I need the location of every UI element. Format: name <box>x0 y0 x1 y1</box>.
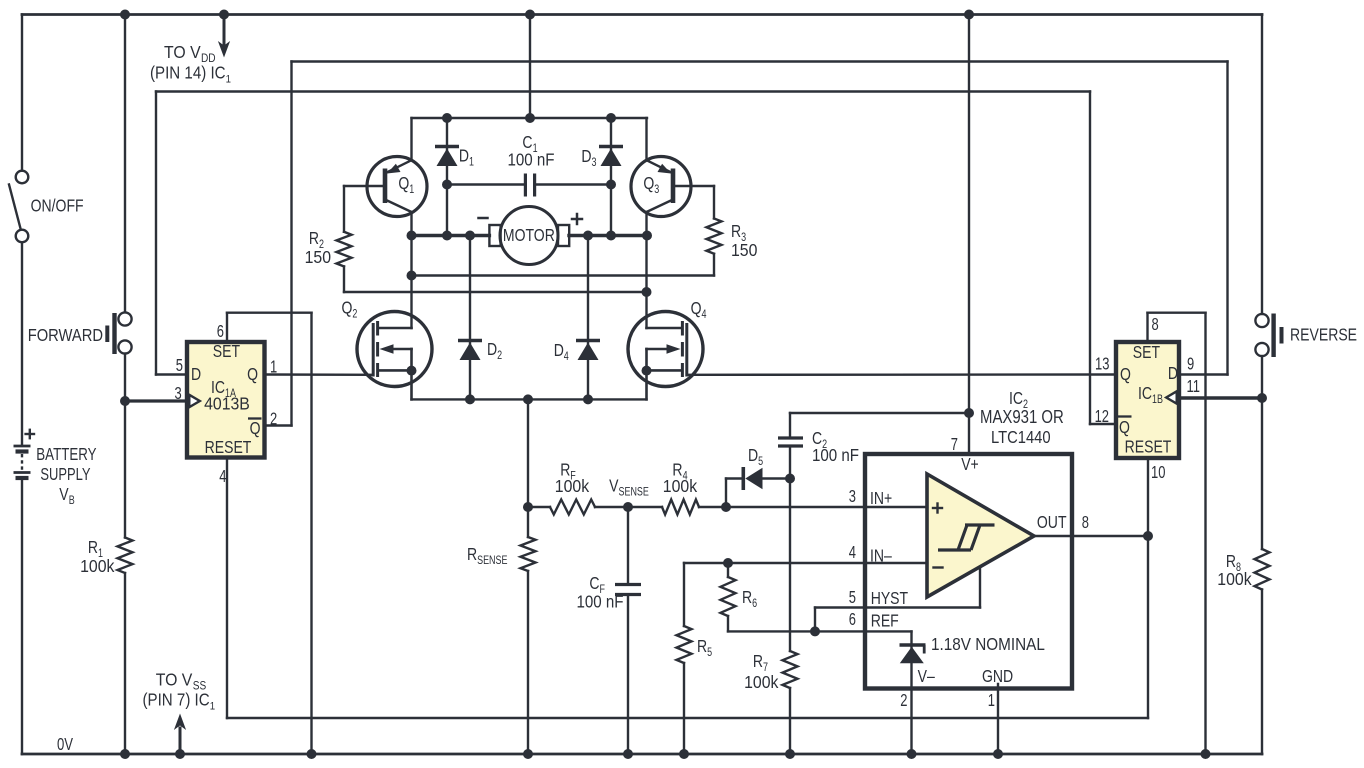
junction top rail / IC2 V+ feed <box>964 10 974 20</box>
wire R8 to 0V rail <box>1261 590 1263 755</box>
svg-text:TO V: TO V <box>156 670 193 690</box>
junction / R3 line <box>407 271 417 281</box>
svg-text:5: 5 <box>176 356 183 376</box>
wire D4 branch <box>587 236 589 400</box>
svg-text:1: 1 <box>210 700 215 713</box>
svg-text:2: 2 <box>900 691 907 711</box>
wire IC1B pin10 RESET down <box>1147 458 1149 718</box>
svg-text:SENSE: SENSE <box>619 486 649 498</box>
wire net QbarA to DB (horizontal) <box>292 60 1228 62</box>
wire motor-left to Q2 drain <box>410 236 412 329</box>
junction D5 / C2 / R7 <box>785 474 795 484</box>
op-amp U-triangle IC2 <box>927 474 1034 597</box>
junction motor-left / D1 <box>442 231 452 241</box>
junction top rail / VDD tap <box>219 10 229 20</box>
svg-text:Q: Q <box>1120 364 1131 384</box>
svg-text:6: 6 <box>217 322 224 342</box>
wire rail to IC2 V+ pin7 <box>968 15 970 463</box>
svg-text:4: 4 <box>564 351 569 363</box>
wire REF internal <box>865 630 912 632</box>
wire SET6 to 0V rail <box>310 313 312 754</box>
svg-text:10: 10 <box>1151 463 1166 483</box>
svg-text:2: 2 <box>270 410 277 430</box>
wire IC1A pin6 SET loop <box>226 313 228 342</box>
junction motor-right / D3 <box>606 231 616 241</box>
svg-text:4: 4 <box>702 309 707 321</box>
junction motor-left / D2 <box>465 231 475 241</box>
junction row / D2 <box>465 394 475 404</box>
svg-text:REVERSE: REVERSE <box>1290 325 1357 345</box>
svg-text:8: 8 <box>1152 315 1159 335</box>
svg-text:150: 150 <box>731 240 757 260</box>
motor plus terminal <box>572 218 582 221</box>
transistor Q2 NMOS <box>357 312 432 387</box>
wire IC1B pin9 D <box>1181 373 1228 375</box>
svg-text:4: 4 <box>849 543 856 563</box>
junction V+ / C2 <box>964 408 974 418</box>
svg-text:MAX931 OR: MAX931 OR <box>980 407 1064 428</box>
svg-text:1B: 1B <box>1152 394 1163 406</box>
wire IC1A pin5 D <box>156 373 186 375</box>
junction GND / 0V rail <box>993 749 1003 759</box>
wire to R5 <box>683 563 685 626</box>
svg-text:3: 3 <box>654 184 659 196</box>
resistor R8 <box>1255 549 1270 590</box>
resistor R2 <box>343 186 345 232</box>
wire bottom rail 0V <box>22 753 1262 756</box>
resistor R7 <box>783 651 798 688</box>
wire battery to 0V rail <box>21 481 23 754</box>
junction top rail / forward <box>120 10 130 20</box>
junction 0V rail / VSS tap <box>175 749 185 759</box>
wire R4 to IN+ pin3 <box>699 506 865 508</box>
flip-flop IC1A 4013B <box>187 342 265 458</box>
svg-text:1: 1 <box>469 156 474 168</box>
wire D3 branch <box>610 118 612 236</box>
svg-text:IC: IC <box>1009 388 1023 408</box>
wire D1 branch <box>446 118 448 236</box>
junction RSENSE / 0V rail <box>523 749 533 759</box>
svg-text:Q: Q <box>643 173 654 193</box>
wire left rail upper <box>21 15 23 171</box>
wire H-bridge source row <box>412 398 647 400</box>
svg-text:B: B <box>69 495 75 507</box>
wire IN+ internal <box>865 506 927 508</box>
svg-text:1.18V NOMINAL: 1.18V NOMINAL <box>931 634 1045 654</box>
junction motor-left / Q1 collector <box>407 231 417 241</box>
wire DB riser <box>1226 62 1228 375</box>
svg-text:1: 1 <box>409 184 414 196</box>
svg-text:TO V: TO V <box>164 42 201 62</box>
svg-text:R: R <box>753 651 763 671</box>
junction CF / 0V rail <box>623 749 633 759</box>
svg-text:BATTERY: BATTERY <box>36 445 97 464</box>
svg-text:SET: SET <box>213 341 240 361</box>
wire QbarB riser <box>1089 92 1091 425</box>
switch S1 blade <box>9 185 21 229</box>
svg-text:6: 6 <box>752 598 757 610</box>
wire C2 to V+ node <box>790 412 969 414</box>
resistor R5 <box>677 626 692 663</box>
wire VSENSE node <box>595 506 662 508</box>
wire REF pin6 line <box>728 630 865 632</box>
svg-text:9: 9 <box>1187 355 1194 375</box>
svg-text:R: R <box>697 636 707 656</box>
svg-text:RESET: RESET <box>205 437 252 457</box>
svg-text:150: 150 <box>305 247 331 267</box>
svg-text:Q: Q <box>398 173 409 193</box>
transistor Q4 NMOS <box>628 312 703 387</box>
junction forward/clock3 <box>120 396 130 406</box>
wire motor-right to Q4 drain <box>645 236 647 329</box>
wire RESET net horizontal <box>227 717 1148 719</box>
junction R7 / 0V rail <box>785 749 795 759</box>
transistor Q1 PNP <box>367 157 427 217</box>
wire motor row left <box>412 234 490 237</box>
wire OUT pin8 <box>1034 535 1148 537</box>
wire HYST pin5 <box>815 606 865 608</box>
diode D5 <box>725 479 727 508</box>
arrow to VDD <box>223 15 226 46</box>
svg-text:IN–: IN– <box>870 546 892 566</box>
junction D1 / C1 <box>442 180 452 190</box>
junction Q2 source/body <box>407 366 417 376</box>
svg-text:1: 1 <box>988 691 995 711</box>
svg-text:8: 8 <box>1082 513 1089 533</box>
svg-text:11: 11 <box>1187 377 1200 397</box>
svg-text:100k: 100k <box>663 476 698 496</box>
svg-text:3: 3 <box>849 487 856 507</box>
junction motor-right / D4 <box>583 231 593 241</box>
svg-text:V–: V– <box>918 666 935 686</box>
junction V- pin2 / 0V rail <box>907 749 917 759</box>
capacitor C2 100nF <box>789 447 791 479</box>
junction clock11 / reverse branch <box>1257 393 1267 403</box>
svg-text:6: 6 <box>849 610 856 630</box>
switch S1 ON/OFF contact bottom <box>16 230 29 243</box>
svg-text:4013B: 4013B <box>204 394 250 414</box>
transistor Q3 PNP <box>631 157 691 217</box>
hysteresis symbol <box>938 525 995 550</box>
wire HYST internal <box>865 606 980 608</box>
wire D5 node to R7 <box>789 479 791 652</box>
svg-text:D: D <box>1168 363 1178 383</box>
wire top rail to REVERSE button <box>1261 15 1263 314</box>
svg-text:100k: 100k <box>1217 569 1252 589</box>
wire HYST step <box>814 608 816 632</box>
svg-text:D: D <box>487 339 497 359</box>
svg-text:100 nF: 100 nF <box>577 591 624 612</box>
svg-text:5: 5 <box>707 647 712 659</box>
svg-text:13: 13 <box>1095 355 1110 375</box>
svg-text:SUPPLY: SUPPLY <box>40 465 91 485</box>
IC1B clock input triangle pin 11 <box>1166 391 1177 403</box>
junction bridge rail / supply <box>525 113 535 123</box>
battery supply VB <box>14 445 31 448</box>
wire rail to H-bridge <box>529 15 531 119</box>
wire FORWARD to R1 <box>124 354 126 538</box>
svg-text:ON/OFF: ON/OFF <box>31 196 84 216</box>
svg-text:D: D <box>554 340 564 360</box>
svg-text:Q: Q <box>247 364 258 384</box>
junction RESET10 / OUT <box>1143 531 1153 541</box>
svg-text:R: R <box>467 544 477 564</box>
capacitor C1 100nF <box>447 183 524 185</box>
diode D4 <box>576 339 600 343</box>
junction R5 / 0V rail <box>679 749 689 759</box>
pushbutton FORWARD <box>118 312 131 325</box>
svg-text:7: 7 <box>951 435 958 455</box>
resistor R4 <box>662 500 699 515</box>
svg-text:1: 1 <box>270 358 277 378</box>
wire IN- pin4 line <box>684 562 865 564</box>
junction D3 / C1 <box>606 180 616 190</box>
svg-text:100 nF: 100 nF <box>812 445 859 466</box>
pushbutton REVERSE <box>1255 314 1268 327</box>
junction VSENSE / CF <box>623 502 633 512</box>
junction motor-right / Q3 collector <box>642 231 652 241</box>
wire IC1B pin8 SET loop <box>1146 313 1148 342</box>
junction IN- / R6 <box>723 558 733 568</box>
svg-text:MOTOR: MOTOR <box>503 225 555 245</box>
battery plus sign <box>26 433 34 435</box>
svg-text:REF: REF <box>871 611 899 631</box>
svg-text:SET: SET <box>1133 342 1160 362</box>
flip-flop IC1B <box>1116 342 1179 458</box>
svg-text:5: 5 <box>758 456 763 468</box>
svg-text:RESET: RESET <box>1125 437 1172 457</box>
svg-text:3: 3 <box>175 384 182 404</box>
wire SET8 to 0V rail <box>1204 313 1206 754</box>
resistor RSENSE <box>521 537 536 571</box>
wire H-bridge top rail <box>412 117 648 119</box>
arrow to VSS <box>179 728 182 754</box>
svg-text:V: V <box>609 476 619 496</box>
svg-text:IN+: IN+ <box>870 488 892 508</box>
wire R1 to 0V <box>124 573 126 754</box>
svg-text:Q: Q <box>342 298 353 318</box>
svg-text:2: 2 <box>352 308 357 320</box>
svg-text:5: 5 <box>849 588 856 608</box>
svg-text:100k: 100k <box>744 672 779 692</box>
junction bridge rail / D3 <box>606 113 616 123</box>
resistor R6 <box>721 577 736 616</box>
svg-text:(PIN 7) IC: (PIN 7) IC <box>143 689 210 710</box>
svg-text:4: 4 <box>219 467 226 487</box>
svg-text:V: V <box>59 484 69 504</box>
svg-text:R: R <box>742 587 752 607</box>
wire net QbarB to DA (horizontal) <box>156 90 1090 92</box>
IC1A clock input triangle pin 3 <box>189 395 200 407</box>
wire D2 branch <box>469 236 471 400</box>
svg-text:SENSE: SENSE <box>477 555 507 567</box>
svg-text:1: 1 <box>226 73 231 86</box>
wire IC1B pin11 clock <box>1179 396 1262 399</box>
svg-text:GND: GND <box>982 666 1013 686</box>
svg-text:3: 3 <box>592 157 597 169</box>
junction RSENSE / RF <box>523 502 533 512</box>
wire to RSENSE <box>527 399 529 537</box>
svg-text:D: D <box>459 146 469 166</box>
svg-text:D: D <box>581 146 591 166</box>
junction R4 / D5 <box>721 502 731 512</box>
svg-text:(PIN 14) IC: (PIN 14) IC <box>150 62 226 83</box>
diode D1 <box>435 145 459 149</box>
wire rail to FORWARD button <box>124 15 126 313</box>
junction SET6 / 0V rail <box>307 749 317 759</box>
wire REVERSE to R8 <box>1261 356 1263 549</box>
motor M1 <box>500 207 558 265</box>
switch S1 ON/OFF contact top <box>16 171 29 184</box>
comparator IC2 MAX931/LTC1440 box <box>865 454 1072 689</box>
svg-text:D: D <box>191 364 201 384</box>
comparator plus input mark <box>933 507 942 509</box>
diode D2 <box>458 339 482 343</box>
wire switch to battery <box>21 243 23 445</box>
svg-text:OUT: OUT <box>1037 512 1067 532</box>
junction top rail / bridge feed <box>525 10 535 20</box>
svg-text:IC: IC <box>1138 383 1152 403</box>
diode D3 <box>599 145 623 149</box>
wire GND pin1 <box>997 684 999 754</box>
wire IC1A pin2 Qbar <box>267 424 292 426</box>
svg-text:HYST: HYST <box>871 588 909 608</box>
svg-text:D: D <box>748 445 758 465</box>
svg-text:100 nF: 100 nF <box>508 149 555 170</box>
svg-text:100k: 100k <box>555 476 590 496</box>
junction bridge rail / D1 <box>442 113 452 123</box>
junction row / RSENSE <box>523 394 533 404</box>
wire IC1B pin13 Q to Q4 gate <box>687 373 1116 376</box>
motor minus terminal <box>479 217 488 220</box>
zener reference 1.18V <box>910 631 912 754</box>
svg-text:Q: Q <box>691 298 702 318</box>
svg-text:12: 12 <box>1095 407 1109 427</box>
resistor R3 <box>713 186 715 219</box>
svg-text:LTC1440: LTC1440 <box>991 428 1051 448</box>
svg-text:Q: Q <box>250 418 261 438</box>
comparator minus input mark <box>934 566 943 568</box>
junction R1 / 0V rail <box>120 749 130 759</box>
svg-text:100k: 100k <box>80 556 115 576</box>
wire DA riser <box>155 92 157 375</box>
junction Q4 source/body <box>642 366 652 376</box>
svg-text:R: R <box>88 537 98 557</box>
capacitor CF 100nF <box>627 507 629 584</box>
resistor R1 <box>118 538 133 574</box>
junction row / D4 <box>583 394 593 404</box>
wire R2 bottom to Q4 drain <box>344 291 647 293</box>
svg-text:Q: Q <box>1119 417 1130 437</box>
svg-text:R: R <box>731 221 741 241</box>
wire QbarA riser <box>290 62 292 426</box>
svg-text:V+: V+ <box>961 454 979 474</box>
svg-text:R: R <box>309 228 319 248</box>
wire R6 top <box>727 563 729 577</box>
wire IC1A pin1 Q to Q2 gate <box>267 373 374 376</box>
wire R3 bottom to Q2 drain <box>412 274 715 276</box>
junction REF / HYST <box>810 626 820 636</box>
junction / R2 line <box>642 287 652 297</box>
wire motor row right <box>569 234 647 237</box>
svg-text:FORWARD: FORWARD <box>28 326 103 346</box>
svg-text:2: 2 <box>497 350 502 362</box>
junction SET8 / 0V rail <box>1201 749 1211 759</box>
wire top supply rail VB+ <box>22 13 1262 16</box>
wire RF line <box>528 506 550 508</box>
svg-text:0V: 0V <box>57 735 73 754</box>
wire IC1A pin4 RESET down <box>226 459 228 718</box>
wire IC1B pin12 Qbar <box>1090 423 1114 425</box>
wire clock pin3 IC1A <box>125 399 186 402</box>
resistor RF <box>550 500 595 515</box>
wire IN- internal <box>865 562 927 564</box>
